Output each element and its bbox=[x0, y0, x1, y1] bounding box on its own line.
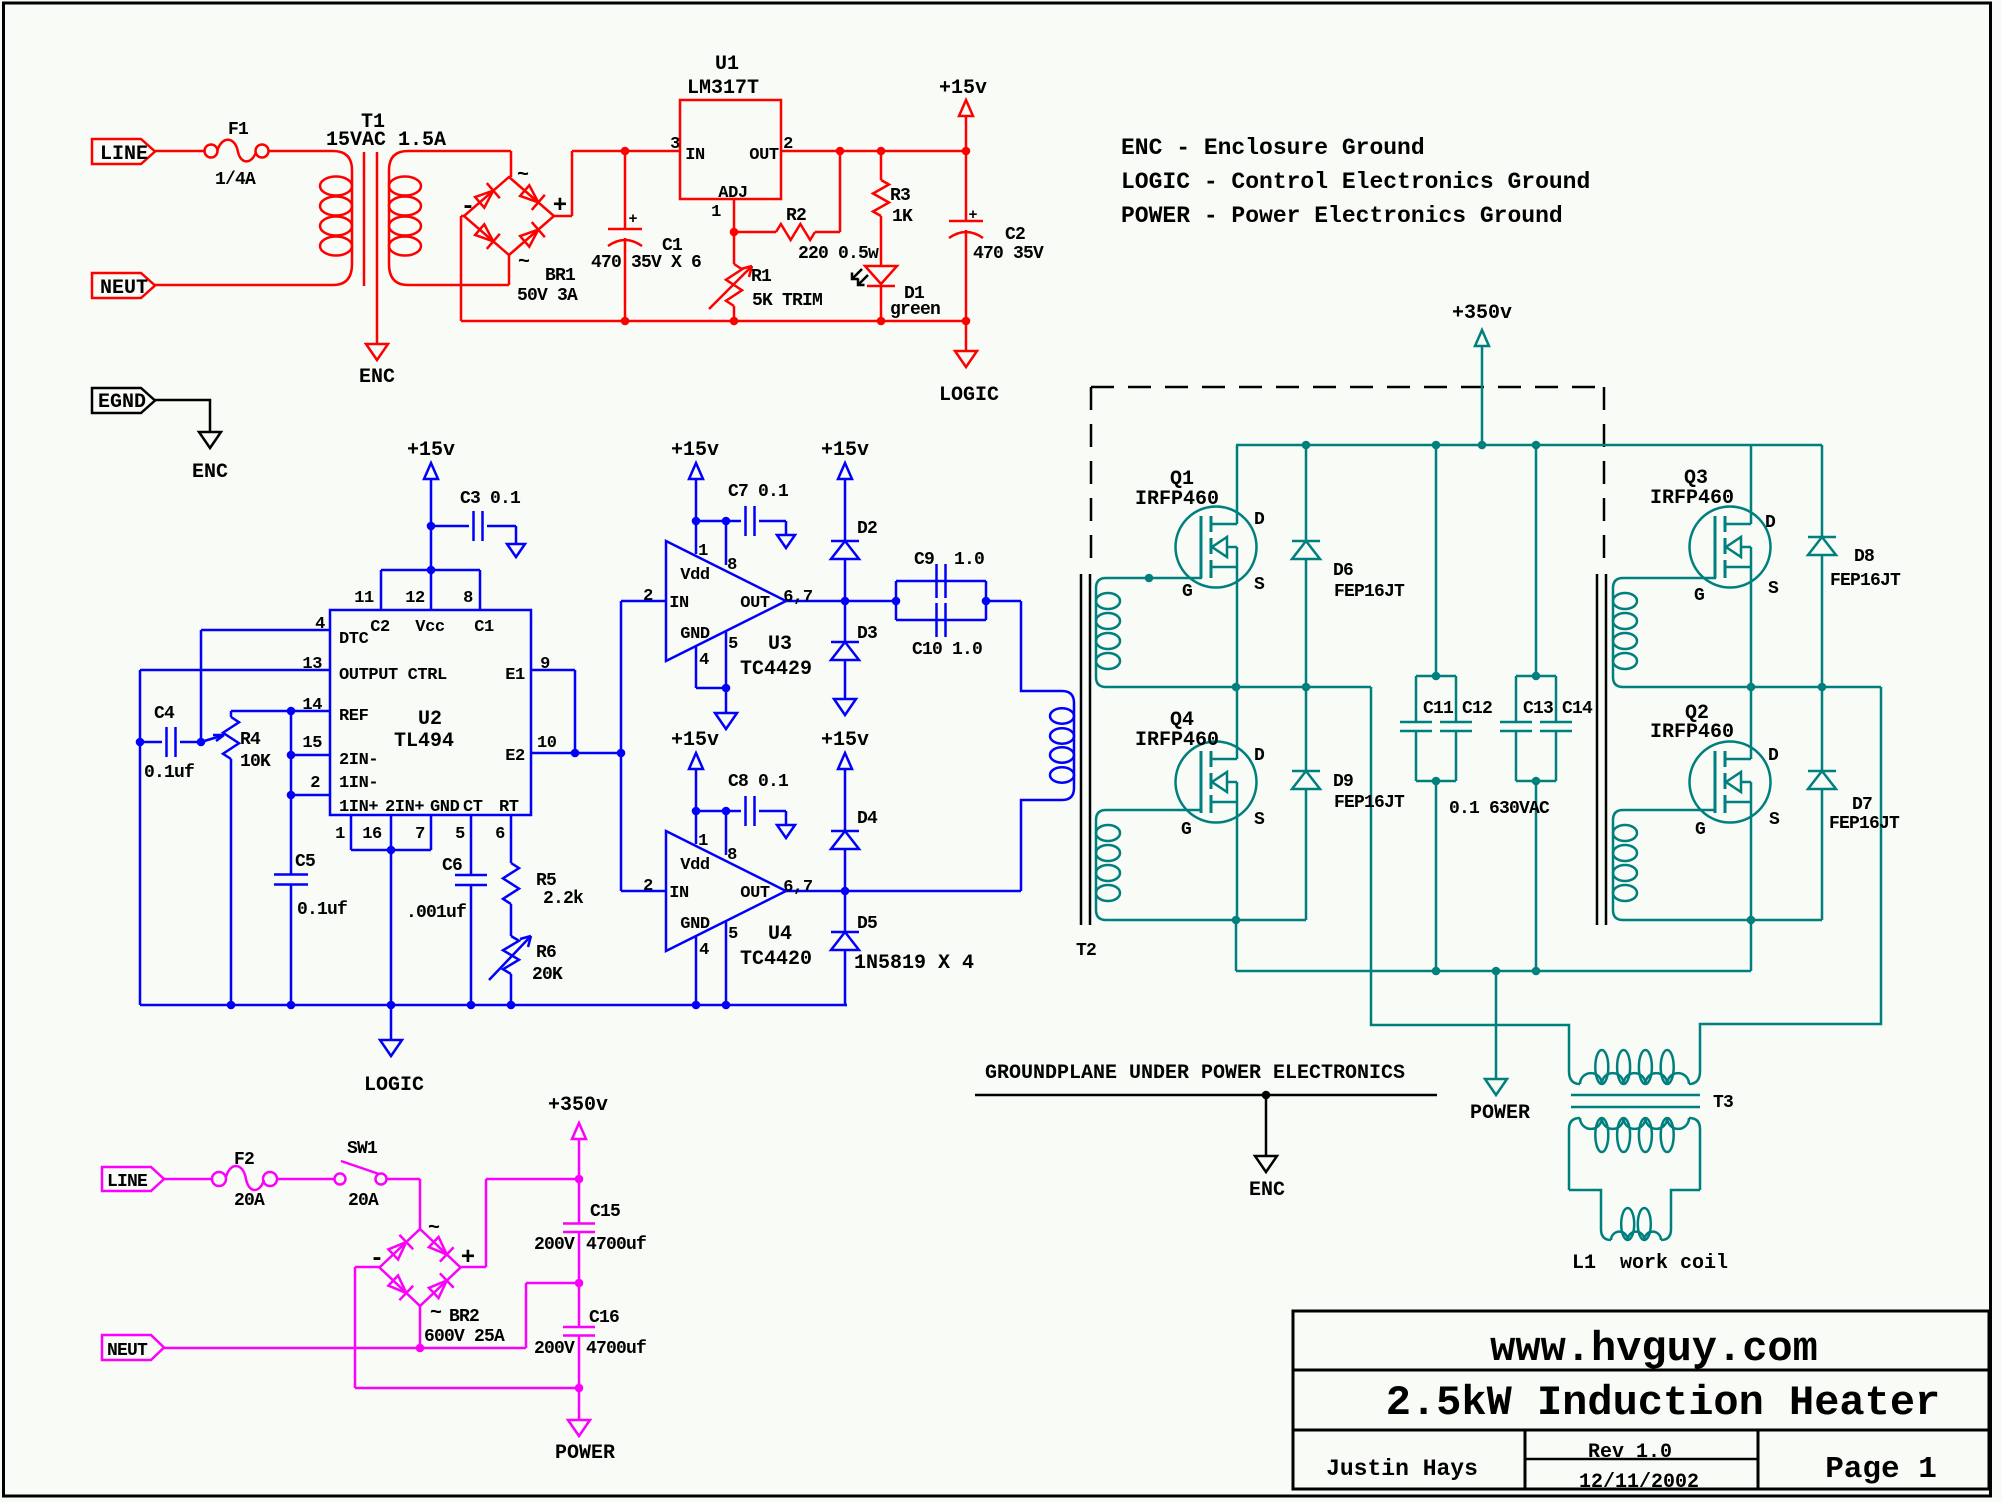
svg-text:U2: U2 bbox=[418, 708, 442, 731]
svg-text:C10 1.0: C10 1.0 bbox=[912, 640, 982, 660]
svg-text:Justin Hays: Justin Hays bbox=[1326, 1456, 1478, 1482]
svg-text:GND: GND bbox=[430, 798, 460, 817]
svg-text:NEUT: NEUT bbox=[100, 277, 148, 300]
svg-text:BR2: BR2 bbox=[449, 1307, 479, 1327]
svg-text:OUTPUT CTRL: OUTPUT CTRL bbox=[339, 666, 447, 685]
svg-text:+: + bbox=[968, 207, 977, 224]
svg-text:+: + bbox=[553, 193, 567, 220]
svg-text:4: 4 bbox=[699, 651, 709, 670]
svg-text:IRFP460: IRFP460 bbox=[1135, 729, 1219, 752]
svg-text:2: 2 bbox=[783, 135, 793, 154]
svg-text:T2: T2 bbox=[1076, 941, 1096, 961]
svg-text:C7 0.1: C7 0.1 bbox=[728, 482, 789, 502]
svg-text:+350v: +350v bbox=[1452, 302, 1512, 325]
svg-text:0.1uf: 0.1uf bbox=[297, 900, 347, 920]
svg-text:NEUT: NEUT bbox=[107, 1341, 148, 1361]
svg-text:C4: C4 bbox=[154, 704, 175, 724]
svg-text:G: G bbox=[1694, 586, 1704, 606]
svg-text:470 35V X 6: 470 35V X 6 bbox=[591, 253, 701, 273]
svg-text:U3: U3 bbox=[768, 633, 792, 656]
svg-text:E2: E2 bbox=[505, 747, 525, 766]
svg-text:+15v: +15v bbox=[821, 729, 869, 752]
svg-text:R5: R5 bbox=[536, 871, 556, 891]
svg-text:S: S bbox=[1254, 810, 1265, 830]
svg-text:4: 4 bbox=[699, 941, 709, 960]
svg-text:C2: C2 bbox=[1005, 225, 1025, 245]
svg-text:4700uf: 4700uf bbox=[586, 1235, 646, 1255]
svg-text:14: 14 bbox=[302, 696, 322, 715]
svg-text:+15v: +15v bbox=[939, 77, 987, 100]
svg-text:1: 1 bbox=[698, 542, 708, 561]
svg-text:2.5kW Induction Heater: 2.5kW Induction Heater bbox=[1386, 1379, 1941, 1427]
svg-text:TC4420: TC4420 bbox=[740, 948, 812, 971]
svg-text:1K: 1K bbox=[892, 207, 913, 227]
svg-text:1: 1 bbox=[711, 203, 721, 222]
svg-text:6,7: 6,7 bbox=[783, 878, 813, 897]
svg-text:~: ~ bbox=[428, 1217, 440, 1240]
svg-text:C15: C15 bbox=[590, 1202, 620, 1222]
svg-text:OUT: OUT bbox=[749, 146, 779, 165]
svg-text:Vdd: Vdd bbox=[680, 566, 710, 585]
svg-text:1IN-: 1IN- bbox=[339, 774, 378, 793]
svg-text:Vdd: Vdd bbox=[680, 856, 710, 875]
svg-text:0.1 630VAC: 0.1 630VAC bbox=[1449, 799, 1550, 819]
svg-text:green: green bbox=[890, 300, 940, 320]
svg-text:R1: R1 bbox=[751, 267, 772, 287]
svg-text:15: 15 bbox=[302, 734, 322, 753]
svg-text:-: - bbox=[370, 1246, 384, 1273]
svg-text:8: 8 bbox=[463, 589, 473, 608]
svg-text:200V: 200V bbox=[534, 1235, 575, 1255]
svg-text:ADJ: ADJ bbox=[718, 184, 747, 203]
svg-text:D3: D3 bbox=[857, 624, 877, 644]
svg-text:POWER: POWER bbox=[1470, 1102, 1530, 1125]
svg-text:1: 1 bbox=[698, 832, 708, 851]
svg-text:R4: R4 bbox=[240, 730, 261, 750]
svg-text:C12: C12 bbox=[1462, 699, 1492, 719]
svg-text:2: 2 bbox=[643, 587, 653, 606]
svg-text:LINE: LINE bbox=[100, 143, 148, 166]
svg-text:ENC: ENC bbox=[192, 461, 228, 484]
svg-text:2: 2 bbox=[310, 774, 320, 793]
svg-text:T3: T3 bbox=[1713, 1093, 1733, 1113]
svg-text:ENC: ENC bbox=[359, 366, 395, 389]
svg-text:3: 3 bbox=[670, 135, 680, 154]
svg-text:LM317T: LM317T bbox=[687, 77, 759, 100]
svg-text:D9: D9 bbox=[1333, 772, 1353, 792]
svg-text:D: D bbox=[1254, 746, 1265, 766]
svg-text:20K: 20K bbox=[532, 965, 563, 985]
svg-text:IN: IN bbox=[685, 146, 705, 165]
svg-text:+15v: +15v bbox=[671, 439, 719, 462]
svg-text:L1 work coil: L1 work coil bbox=[1572, 1252, 1728, 1275]
svg-text:C16: C16 bbox=[589, 1308, 619, 1328]
svg-text:4: 4 bbox=[315, 615, 325, 634]
svg-text:ENC: ENC bbox=[1249, 1179, 1285, 1202]
svg-text:10: 10 bbox=[537, 734, 557, 753]
svg-text:LOGIC - Control Electronics Gr: LOGIC - Control Electronics Ground bbox=[1121, 169, 1590, 195]
svg-text:8: 8 bbox=[727, 556, 737, 575]
svg-text:SW1: SW1 bbox=[347, 1139, 378, 1159]
svg-text:4700uf: 4700uf bbox=[586, 1339, 646, 1359]
svg-text:2.2k: 2.2k bbox=[543, 889, 584, 909]
svg-text:10K: 10K bbox=[240, 752, 271, 772]
svg-text:16: 16 bbox=[362, 825, 382, 844]
svg-text:1IN+: 1IN+ bbox=[339, 798, 378, 817]
svg-text:Page 1: Page 1 bbox=[1825, 1452, 1937, 1487]
svg-text:C3 0.1: C3 0.1 bbox=[460, 489, 521, 509]
svg-text:www.hvguy.com: www.hvguy.com bbox=[1490, 1325, 1818, 1373]
svg-text:D4: D4 bbox=[857, 809, 878, 829]
svg-text:D: D bbox=[1768, 746, 1779, 766]
svg-text:9: 9 bbox=[540, 655, 550, 674]
svg-text:15VAC 1.5A: 15VAC 1.5A bbox=[326, 129, 446, 152]
svg-text:CT: CT bbox=[463, 798, 483, 817]
svg-text:12: 12 bbox=[405, 589, 425, 608]
svg-text:G: G bbox=[1181, 820, 1191, 840]
svg-text:13: 13 bbox=[302, 655, 322, 674]
svg-text:IRFP460: IRFP460 bbox=[1650, 487, 1734, 510]
svg-text:+15v: +15v bbox=[407, 439, 455, 462]
svg-text:~: ~ bbox=[430, 1302, 442, 1325]
svg-text:C2: C2 bbox=[370, 618, 390, 637]
svg-text:D5: D5 bbox=[857, 914, 877, 934]
svg-text:C8 0.1: C8 0.1 bbox=[728, 772, 789, 792]
svg-text:470 35V: 470 35V bbox=[973, 244, 1044, 264]
svg-text:G: G bbox=[1695, 820, 1705, 840]
svg-text:IN: IN bbox=[669, 884, 689, 903]
svg-text:EGND: EGND bbox=[98, 391, 146, 414]
svg-text:ENC - Enclosure Ground: ENC - Enclosure Ground bbox=[1121, 135, 1425, 161]
svg-text:0.1uf: 0.1uf bbox=[144, 763, 194, 783]
svg-text:R6: R6 bbox=[536, 943, 556, 963]
svg-text:D6: D6 bbox=[1333, 561, 1353, 581]
svg-text:LINE: LINE bbox=[107, 1172, 148, 1192]
svg-text:20A: 20A bbox=[234, 1191, 265, 1211]
svg-text:C5: C5 bbox=[295, 852, 315, 872]
svg-text:D: D bbox=[1254, 510, 1265, 530]
svg-text:LOGIC: LOGIC bbox=[939, 384, 999, 407]
svg-text:R3: R3 bbox=[890, 186, 910, 206]
svg-text:S: S bbox=[1254, 575, 1265, 595]
svg-text:C1: C1 bbox=[474, 618, 494, 637]
svg-text:FEP16JT: FEP16JT bbox=[1829, 814, 1900, 834]
svg-text:5: 5 bbox=[728, 635, 738, 654]
svg-text:1/4A: 1/4A bbox=[215, 170, 256, 190]
svg-text:D2: D2 bbox=[857, 519, 877, 539]
svg-text:C13: C13 bbox=[1523, 699, 1553, 719]
svg-text:+: + bbox=[461, 1245, 475, 1272]
svg-text:7: 7 bbox=[415, 825, 425, 844]
svg-text:2: 2 bbox=[643, 877, 653, 896]
svg-text:OUT: OUT bbox=[740, 884, 770, 903]
svg-text:1N5819 X 4: 1N5819 X 4 bbox=[854, 952, 974, 975]
svg-text:+15v: +15v bbox=[671, 729, 719, 752]
svg-text:IRFP460: IRFP460 bbox=[1650, 721, 1734, 744]
svg-text:12/11/2002: 12/11/2002 bbox=[1579, 1471, 1699, 1494]
svg-text:F1: F1 bbox=[228, 120, 249, 140]
svg-text:D8: D8 bbox=[1854, 547, 1874, 567]
svg-text:+15v: +15v bbox=[821, 439, 869, 462]
svg-text:+350v: +350v bbox=[548, 1094, 608, 1117]
svg-text:DTC: DTC bbox=[339, 630, 369, 649]
svg-text:IRFP460: IRFP460 bbox=[1135, 488, 1219, 511]
svg-text:~: ~ bbox=[517, 164, 529, 187]
svg-text:C6: C6 bbox=[442, 856, 462, 876]
svg-text:6: 6 bbox=[495, 825, 505, 844]
svg-text:GND: GND bbox=[680, 625, 710, 644]
svg-text:GND: GND bbox=[680, 915, 710, 934]
svg-text:-: - bbox=[461, 194, 475, 221]
svg-text:5: 5 bbox=[455, 825, 465, 844]
svg-text:5: 5 bbox=[728, 925, 738, 944]
svg-text:U1: U1 bbox=[715, 53, 739, 76]
svg-text:C14: C14 bbox=[1562, 699, 1593, 719]
svg-text:IN: IN bbox=[669, 594, 689, 613]
svg-text:~: ~ bbox=[518, 251, 530, 274]
svg-text:600V 25A: 600V 25A bbox=[424, 1327, 505, 1347]
svg-text:D: D bbox=[1765, 513, 1776, 533]
svg-text:REF: REF bbox=[339, 707, 369, 726]
svg-text:Rev 1.0: Rev 1.0 bbox=[1588, 1441, 1672, 1464]
svg-text:S: S bbox=[1769, 810, 1780, 830]
svg-text:GROUNDPLANE UNDER POWER ELECTR: GROUNDPLANE UNDER POWER ELECTRONICS bbox=[985, 1062, 1405, 1085]
svg-text:R2: R2 bbox=[786, 206, 806, 226]
svg-text:FEP16JT: FEP16JT bbox=[1334, 793, 1405, 813]
svg-text:220 0.5w: 220 0.5w bbox=[798, 244, 879, 264]
svg-text:LOGIC: LOGIC bbox=[364, 1074, 424, 1097]
svg-text:POWER - Power Electronics Grou: POWER - Power Electronics Ground bbox=[1121, 203, 1563, 229]
svg-text:G: G bbox=[1182, 582, 1192, 602]
svg-text:TC4429: TC4429 bbox=[740, 658, 812, 681]
svg-text:200V: 200V bbox=[534, 1339, 575, 1359]
svg-text:S: S bbox=[1768, 579, 1779, 599]
svg-text:OUT: OUT bbox=[740, 594, 770, 613]
svg-text:U4: U4 bbox=[768, 923, 792, 946]
svg-text:POWER: POWER bbox=[555, 1442, 615, 1465]
svg-text:TL494: TL494 bbox=[394, 730, 454, 753]
svg-text:C9 1.0: C9 1.0 bbox=[914, 550, 984, 570]
svg-text:Vcc: Vcc bbox=[415, 618, 445, 637]
svg-text:E1: E1 bbox=[505, 666, 525, 685]
svg-text:20A: 20A bbox=[348, 1191, 379, 1211]
svg-text:+: + bbox=[628, 211, 637, 228]
svg-text:50V 3A: 50V 3A bbox=[517, 286, 578, 306]
svg-text:5K TRIM: 5K TRIM bbox=[752, 291, 822, 311]
svg-text:.001uf: .001uf bbox=[406, 903, 466, 923]
svg-text:BR1: BR1 bbox=[545, 266, 576, 286]
svg-text:8: 8 bbox=[727, 846, 737, 865]
svg-text:FEP16JT: FEP16JT bbox=[1334, 582, 1405, 602]
svg-text:2IN+: 2IN+ bbox=[385, 798, 424, 817]
svg-text:FEP16JT: FEP16JT bbox=[1830, 571, 1901, 591]
svg-text:2IN-: 2IN- bbox=[339, 751, 378, 770]
svg-text:C11: C11 bbox=[1423, 699, 1454, 719]
svg-text:D7: D7 bbox=[1852, 795, 1872, 815]
svg-text:6,7: 6,7 bbox=[783, 588, 813, 607]
svg-text:11: 11 bbox=[354, 589, 374, 608]
svg-text:1: 1 bbox=[335, 825, 345, 844]
svg-text:RT: RT bbox=[499, 798, 519, 817]
svg-text:F2: F2 bbox=[234, 1150, 254, 1170]
